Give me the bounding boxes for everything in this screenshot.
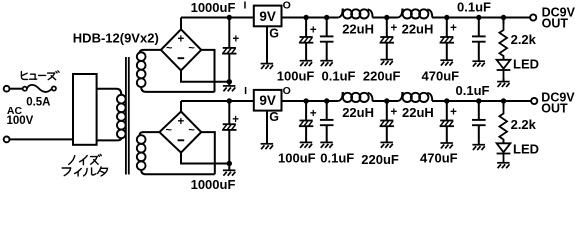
inductor L3 22uH (lower) <box>338 93 372 102</box>
svg-text:O: O <box>283 0 291 12</box>
op-amp U2 regulator 9V (lower) <box>254 90 282 111</box>
svg-text:+: + <box>310 24 317 36</box>
wire bridge D1 bottom vertex to ground junction <box>181 71 229 82</box>
capacitor C1 1000uF (upper) <box>222 18 236 82</box>
node junction dot rail/C7 <box>227 98 232 103</box>
svg-text:LED: LED <box>513 141 539 156</box>
svg-text:9V: 9V <box>259 9 276 24</box>
svg-text:+: + <box>178 34 185 46</box>
capacitor C4 220uF (upper) <box>380 18 394 66</box>
label DC9V OUT (lower) <box>541 91 575 116</box>
svg-text:9V: 9V <box>259 93 276 108</box>
op-amp U1 regulator 9V (upper) <box>254 6 282 27</box>
ground (U1 G pin) <box>261 64 274 69</box>
ground (upper bridge) <box>223 82 236 92</box>
svg-text:22uH: 22uH <box>402 21 434 36</box>
svg-text:+: + <box>450 22 457 34</box>
svg-text:470uF: 470uF <box>420 151 458 166</box>
transformer T1 secondary winding upper <box>137 52 146 87</box>
svg-text:1000uF: 1000uF <box>191 177 236 192</box>
svg-text:470uF: 470uF <box>422 69 460 84</box>
svg-text:0.1uF: 0.1uF <box>322 69 356 84</box>
svg-text:22uH: 22uH <box>342 105 374 120</box>
node junction dot C12 <box>476 98 481 103</box>
svg-text:0.1uF: 0.1uF <box>456 83 490 98</box>
resistor R1 2.2k (upper) <box>499 18 507 60</box>
wire bridge D3 top vertex to rail <box>180 101 182 112</box>
svg-text:+: + <box>310 108 317 120</box>
svg-text:2.2k: 2.2k <box>511 117 537 132</box>
LED D2 (upper) <box>497 57 511 79</box>
label DC9V OUT (upper) <box>542 5 576 30</box>
wire rail L2 to output <box>432 17 530 19</box>
node AC input terminal bottom <box>4 137 10 143</box>
svg-text:O: O <box>283 85 291 97</box>
node junction dot C10 <box>384 98 389 103</box>
capacitor C7 1000uF (lower) <box>222 101 236 164</box>
LED D4 (lower) <box>497 141 511 163</box>
transformer T1 secondary winding lower <box>137 135 146 170</box>
wire U1 G pin to ground <box>266 26 268 63</box>
svg-text:+: + <box>232 34 239 46</box>
wire lower rail regulator O to L3 <box>282 100 339 102</box>
wire bridge D3 right vertex down <box>201 132 215 174</box>
wire rail L3 to L4 <box>372 100 398 102</box>
wire bridge D1 top vertex to rail <box>180 18 182 30</box>
wire noise filter to transformer primary bottom <box>97 138 122 140</box>
node junction dot bridge ground (upper) <box>227 79 232 84</box>
svg-text:OUT: OUT <box>542 16 569 30</box>
inductor L4 22uH (lower) <box>398 93 432 102</box>
node junction dot C5 <box>444 15 449 20</box>
wire lower secondary top lead to bridge <box>140 132 160 136</box>
node junction dot C2 <box>303 15 308 20</box>
bridge rectifier D1 (upper) <box>161 29 201 70</box>
svg-text:+: + <box>450 106 457 118</box>
svg-text:+: + <box>178 116 185 128</box>
capacitor C6 0.1uF (upper) <box>472 18 486 67</box>
svg-text:0.5A: 0.5A <box>26 96 50 108</box>
inductor L1 22uH (upper) <box>338 9 372 18</box>
svg-text:~: ~ <box>188 125 195 137</box>
wire bridge D3 bottom vertex to ground junction <box>181 153 229 164</box>
svg-text:LED: LED <box>513 56 539 71</box>
svg-text:+: + <box>391 106 398 118</box>
transformer T1 core <box>126 57 129 175</box>
node junction dot rail/C1 <box>227 15 232 20</box>
capacitor C9 0.1uF (lower) <box>320 101 334 148</box>
capacitor C8 100uF (lower) <box>299 101 313 148</box>
svg-text:I: I <box>244 0 247 12</box>
svg-text:0.1uF: 0.1uF <box>457 0 491 15</box>
wire upper secondary bottom lead <box>141 87 214 92</box>
fuse F1 0.5A <box>23 85 56 92</box>
wire lower rail bridge to regulator I <box>181 100 254 102</box>
capacitor C5 470uF (upper) <box>440 18 454 66</box>
node junction dot C6 <box>476 15 481 20</box>
node output terminal (lower) <box>531 98 537 104</box>
svg-text:22uH: 22uH <box>342 21 374 36</box>
wire rail L4 to output (lower) <box>432 100 531 102</box>
svg-text:G: G <box>269 110 279 124</box>
node AC input terminal top <box>4 86 10 92</box>
wire bridge D1 right vertex down <box>201 50 214 92</box>
wire top rail regulator O to L1 <box>282 17 339 19</box>
node junction dot R1 <box>501 15 506 20</box>
svg-text:OUT: OUT <box>541 101 568 115</box>
svg-text:220uF: 220uF <box>361 152 399 167</box>
ground (lower LED) <box>497 163 510 168</box>
svg-text:G: G <box>269 27 279 41</box>
wire lower secondary bottom lead <box>141 170 215 174</box>
ground (lower bridge) <box>223 164 236 176</box>
node junction dot C11 <box>444 98 449 103</box>
capacitor C3 0.1uF (upper) <box>320 18 334 67</box>
wire bottom terminal to noise filter <box>10 138 74 140</box>
node junction dot C9 <box>324 98 329 103</box>
wire rail L1 to L2 <box>372 17 398 19</box>
node junction dot bridge ground (lower) <box>227 161 232 166</box>
capacitor C2 100uF (upper) <box>299 18 313 67</box>
svg-text:~: ~ <box>165 125 172 137</box>
node junction dot R2 <box>501 98 506 103</box>
svg-text:100uF: 100uF <box>278 151 316 166</box>
capacitor C11 470uF (lower) <box>440 101 454 148</box>
svg-text:~: ~ <box>166 43 173 55</box>
node junction dot C3 <box>324 15 329 20</box>
transformer T1 primary winding <box>117 95 126 138</box>
wire terminal to fuse <box>10 88 23 90</box>
ground (U2 G pin) <box>261 144 274 149</box>
svg-text:HDB-12(9Vx2): HDB-12(9Vx2) <box>73 30 159 45</box>
capacitor C10 220uF (lower) <box>380 101 394 148</box>
capacitor C12 0.1uF (lower) <box>472 101 486 150</box>
label noizu firuta (noise filter katakana) <box>62 154 107 176</box>
svg-text:1000uF: 1000uF <box>191 0 236 15</box>
inductor L2 22uH (upper) <box>398 9 432 18</box>
svg-text:+: + <box>391 22 398 34</box>
ground (upper LED) <box>497 79 510 88</box>
svg-text:220uF: 220uF <box>363 69 401 84</box>
resistor R2 2.2k (lower) <box>499 101 507 143</box>
wire upper secondary top lead to bridge <box>140 50 161 54</box>
svg-text:~: ~ <box>188 43 195 55</box>
label hyuuzu (fuse katakana) <box>21 71 59 80</box>
svg-text:100V: 100V <box>7 115 34 127</box>
node junction dot C4 <box>384 15 389 20</box>
node junction dot C8 <box>303 98 308 103</box>
wire top rail bridge to regulator I <box>181 17 254 19</box>
svg-text:22uH: 22uH <box>402 105 434 120</box>
node output terminal (upper) <box>530 14 536 20</box>
svg-text:I: I <box>244 85 247 97</box>
svg-text:2.2k: 2.2k <box>511 32 537 47</box>
noise filter box <box>73 74 97 145</box>
bridge rectifier D3 (lower) <box>159 112 201 153</box>
wire noise filter to transformer primary top <box>97 89 122 95</box>
svg-text:+: + <box>232 114 239 126</box>
svg-text:0.1uF: 0.1uF <box>320 151 354 166</box>
wire U2 G pin to ground <box>266 111 268 144</box>
svg-text:100uF: 100uF <box>277 69 315 84</box>
